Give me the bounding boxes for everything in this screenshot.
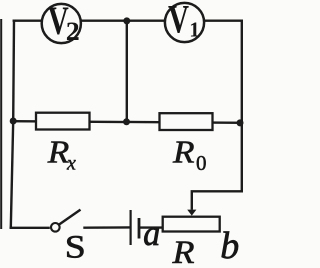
svg-text:b: b	[220, 225, 239, 267]
svg-text:0: 0	[196, 151, 207, 175]
svg-text:V: V	[168, 0, 189, 42]
wire center vertical branch	[126, 21, 128, 122]
node junction center row	[123, 118, 130, 125]
label R0	[172, 134, 207, 175]
label Rx	[47, 134, 76, 175]
switch S	[51, 210, 81, 232]
svg-text:2: 2	[66, 17, 80, 46]
wire top (left corner to right corner)	[14, 20, 242, 22]
resistor Rx	[36, 113, 90, 130]
node junction left row	[10, 118, 17, 125]
rheostat slider arrow	[187, 210, 196, 216]
wire switch to battery	[85, 226, 130, 229]
node junction top center	[123, 17, 130, 24]
wire middle resistor row	[13, 121, 242, 123]
voltmeter V1	[165, 0, 204, 42]
wire bottom left (corner to switch)	[11, 227, 49, 229]
svg-text:1: 1	[189, 17, 200, 41]
svg-text:R: R	[172, 134, 195, 170]
svg-text:a: a	[143, 213, 160, 253]
battery	[131, 210, 139, 245]
resistor R0	[160, 113, 213, 130]
voltmeter V2	[42, 0, 81, 46]
wire left-edge vertical	[0, 20, 2, 228]
svg-text:x: x	[66, 152, 76, 174]
wire left side	[11, 21, 14, 228]
wire battery to rheostat	[140, 226, 163, 228]
svg-text:S: S	[65, 230, 86, 266]
wire right side	[241, 21, 243, 192]
node junction right row	[237, 119, 244, 126]
rheostat R	[163, 217, 220, 232]
wire slider connector from right side	[192, 191, 242, 208]
svg-text:R: R	[171, 235, 194, 268]
